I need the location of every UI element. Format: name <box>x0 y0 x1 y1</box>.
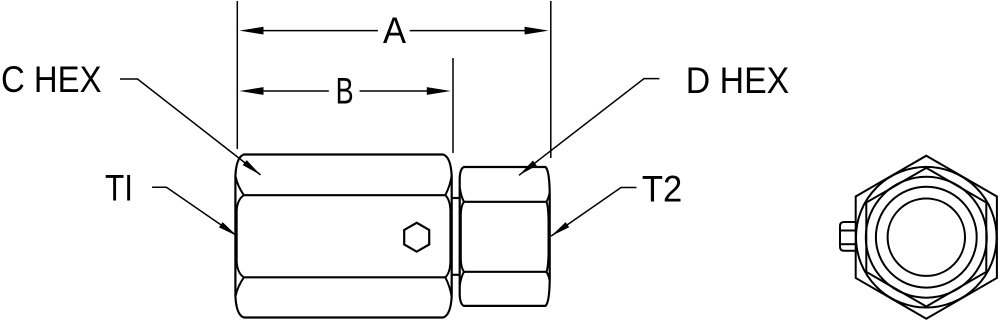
side tab on end view <box>840 222 856 251</box>
C-hex face chamfer arc left <box>237 195 244 277</box>
end view chamfer circle of C hex <box>856 167 997 308</box>
D-hex edge wedge bottom-left <box>460 272 464 285</box>
leader D HEX <box>519 79 659 176</box>
end view inner hexagon (D hex) <box>866 168 986 307</box>
svg-text:B: B <box>336 71 354 112</box>
D-hex edge wedge top-left <box>460 188 464 202</box>
svg-text:TI: TI <box>105 168 133 209</box>
body D-hex silhouette (side view small hex) <box>460 167 550 306</box>
D-hex edge wedge top-right <box>547 193 550 202</box>
leader T2 <box>551 188 637 237</box>
svg-text:A: A <box>383 10 406 51</box>
dimension line B <box>256 90 433 92</box>
leader C HEX <box>120 79 261 175</box>
arrowhead A left <box>240 27 264 35</box>
dimension line A <box>256 30 532 32</box>
arrowhead A right <box>525 27 549 35</box>
D-hex facet line bottom <box>464 271 547 273</box>
extension line B right <box>452 58 454 153</box>
D-hex face chamfer arc right <box>547 202 549 272</box>
D-hex face chamfer arc left <box>461 202 464 272</box>
wrench hex detail on body face <box>404 223 429 252</box>
C-hex edge wedge bottom-right <box>445 277 451 296</box>
arrowhead T2 <box>551 222 569 236</box>
side tab band line bottom <box>841 243 856 245</box>
extension line right (A) <box>550 1 552 158</box>
end view outer hexagon (C hex) <box>856 156 997 319</box>
arrowhead T1 <box>219 222 237 236</box>
arrowhead C HEX <box>243 160 261 175</box>
end view thread major circle <box>876 187 977 288</box>
arrowhead B right <box>427 87 451 95</box>
svg-text:D HEX: D HEX <box>686 60 789 101</box>
end view thread minor circle <box>888 199 965 276</box>
C-hex edge wedge top-left <box>236 177 244 196</box>
svg-text:C HEX: C HEX <box>1 59 102 100</box>
leader T1 <box>152 187 237 236</box>
D-hex facet line top <box>464 201 547 203</box>
neck line top <box>452 197 460 199</box>
neck line bottom <box>452 274 460 276</box>
arrowhead B left <box>240 87 264 95</box>
C-hex facet line top <box>244 194 445 196</box>
C-hex face chamfer arc right <box>445 195 450 277</box>
end view chamfer circle of D hex <box>866 177 987 298</box>
body C-hex silhouette (side view large hex) <box>235 155 451 318</box>
C-hex facet line bottom <box>244 276 445 278</box>
D-hex edge wedge bottom-right <box>547 272 550 280</box>
C-hex edge wedge bottom-left <box>236 277 244 296</box>
extension line left (A/B datum) <box>236 1 238 149</box>
side tab band line top <box>841 230 856 232</box>
arrowhead D HEX <box>519 161 537 176</box>
C-hex edge wedge top-right <box>445 177 451 196</box>
svg-text:T2: T2 <box>642 169 682 210</box>
